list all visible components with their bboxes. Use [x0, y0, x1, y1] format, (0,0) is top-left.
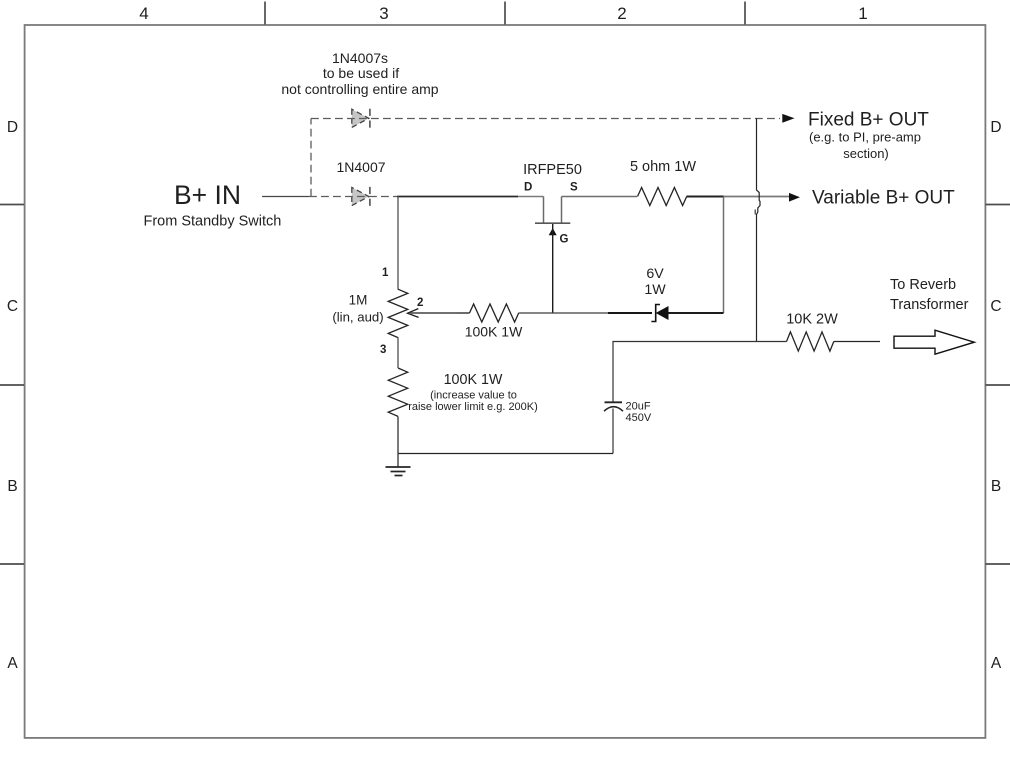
wire zener cathode to output node leg	[669, 312, 724, 314]
wire ground rail	[398, 453, 613, 455]
wire source to R1	[562, 196, 638, 198]
svg-text:450V: 450V	[626, 412, 652, 424]
svg-text:1N4007: 1N4007	[336, 159, 385, 175]
svg-text:raise lower limit e.g. 200K): raise lower limit e.g. 200K)	[408, 401, 538, 413]
svg-text:section): section)	[843, 146, 889, 161]
svg-text:100K 1W: 100K 1W	[444, 372, 503, 388]
wire long vertical with hop over variable rail	[757, 119, 761, 342]
svg-text:(increase value to: (increase value to	[430, 390, 517, 402]
svg-text:1: 1	[382, 267, 389, 279]
wire dashed B+ branch through D2	[309, 196, 397, 198]
wire R3 to zener anode	[519, 312, 609, 314]
svg-text:S: S	[570, 182, 578, 194]
wire gate line	[552, 224, 554, 313]
svg-text:To Reverb: To Reverb	[890, 277, 956, 293]
svg-text:A: A	[991, 655, 1002, 672]
svg-text:5 ohm 1W: 5 ohm 1W	[630, 159, 696, 175]
svg-text:D: D	[7, 119, 18, 136]
wire rail gray tail to drain	[518, 196, 544, 198]
svg-text:4: 4	[139, 4, 148, 23]
diode D1 1N4007s (dashed option)	[281, 50, 438, 128]
wire dashed fixed B+ line	[311, 118, 780, 120]
svg-text:From Standby Switch: From Standby Switch	[144, 214, 282, 230]
svg-text:IRFPE50: IRFPE50	[523, 162, 582, 178]
wire reverb rail	[613, 342, 787, 403]
wire main B+ rail to MOSFET drain	[397, 196, 518, 198]
svg-text:to be used if: to be used if	[323, 65, 399, 81]
svg-text:D: D	[524, 182, 532, 194]
resistor R5 10K 2W	[786, 312, 838, 352]
svg-text:1N4007s: 1N4007s	[332, 50, 388, 66]
svg-text:3: 3	[379, 4, 388, 23]
svg-text:D: D	[990, 119, 1001, 136]
svg-text:C: C	[7, 298, 18, 315]
ground	[386, 467, 411, 476]
capacitor C1 20uF 450V	[604, 401, 652, 425]
resistor R1 5 ohm 1W	[630, 159, 696, 206]
svg-text:B: B	[7, 478, 17, 495]
svg-text:A: A	[7, 655, 18, 672]
svg-text:Variable B+ OUT: Variable B+ OUT	[812, 188, 955, 209]
wire R4 to ground	[397, 416, 399, 466]
node Fixed B+ OUT	[782, 110, 929, 162]
wire pot to R4	[397, 337, 399, 368]
svg-text:B: B	[991, 478, 1001, 495]
svg-text:(e.g. to PI, pre-amp: (e.g. to PI, pre-amp	[809, 130, 921, 145]
svg-text:1: 1	[858, 4, 867, 23]
svg-text:Fixed B+ OUT: Fixed B+ OUT	[808, 110, 929, 131]
wire wiper arrow to R3	[457, 312, 470, 314]
svg-text:6V: 6V	[646, 266, 664, 282]
svg-text:C: C	[990, 298, 1001, 315]
svg-text:2: 2	[617, 4, 626, 23]
svg-text:2: 2	[417, 297, 423, 309]
resistor R4 100K 1W (lower limit)	[388, 368, 538, 416]
wire R1 to output node	[687, 196, 725, 198]
svg-text:G: G	[560, 234, 569, 246]
wire thick segment into zener	[608, 312, 652, 314]
wire hop stub	[754, 210, 756, 215]
svg-text:3: 3	[380, 344, 386, 356]
wire drop to potentiometer	[397, 197, 399, 290]
svg-text:(lin, aud): (lin, aud)	[332, 310, 383, 325]
svg-text:10K 2W: 10K 2W	[786, 312, 838, 328]
svg-text:1W: 1W	[644, 282, 666, 298]
potentiometer R2 1M (lin, aud)	[332, 267, 457, 356]
diode D2 1N4007	[336, 159, 385, 206]
wire input from B+ IN	[262, 196, 309, 198]
wire capacitor to ground rail	[612, 409, 614, 454]
svg-text:20uF: 20uF	[626, 401, 651, 413]
wire output node down to zener	[723, 197, 725, 314]
svg-text:1M: 1M	[349, 293, 368, 308]
transistor Q1 IRFPE50	[523, 162, 582, 246]
node To Reverb Transformer	[890, 277, 974, 354]
svg-text:100K 1W: 100K 1W	[465, 324, 523, 340]
wire R5 to reverb arrow	[834, 341, 880, 343]
svg-text:not controlling entire amp: not controlling entire amp	[281, 81, 438, 97]
node B+ IN	[144, 180, 282, 230]
wire dashed vertical branch to D1	[310, 119, 312, 197]
wire output node to variable arrow	[724, 196, 790, 198]
node Variable B+ OUT	[789, 188, 955, 209]
resistor R3 100K 1W (wiper series)	[465, 304, 523, 340]
zener diode DZ 6V 1W	[644, 266, 668, 322]
svg-text:Transformer: Transformer	[890, 297, 969, 313]
svg-text:B+ IN: B+ IN	[174, 180, 241, 210]
